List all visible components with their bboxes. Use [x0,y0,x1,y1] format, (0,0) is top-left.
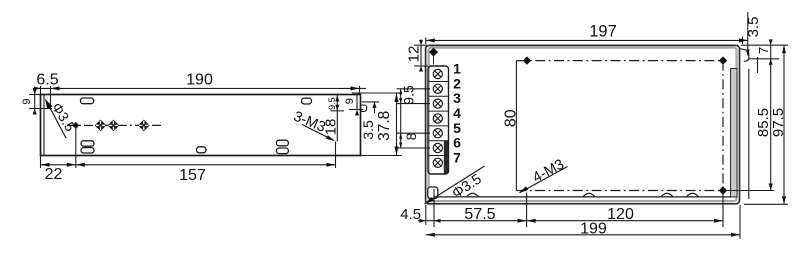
case bottom inner dark line [428,196,737,198]
inner hole diamond top-left [523,56,531,64]
svg-text:37.8: 37.8 [376,111,393,141]
side hole diamond 2 [108,120,120,132]
dimension 199 line [426,205,740,239]
centerline through side holes [67,124,163,126]
svg-text:80: 80 [502,109,519,127]
svg-text:2: 2 [453,75,461,91]
svg-text:3: 3 [453,90,461,106]
vent slot bottom-right upper [276,140,288,146]
terminal block outline [428,66,449,174]
dimension 4.5 / 57.5 / 120 line [418,189,723,227]
vent slot top-left [81,98,94,104]
inner hole diamond top-right [719,56,727,64]
svg-text:4-M3: 4-M3 [530,157,567,187]
dimension 6.5 / 190 top line [33,86,366,109]
svg-text:18: 18 [323,119,340,136]
dimension 9 left [29,90,52,114]
svg-text:190: 190 [186,71,213,88]
svg-text:3.5: 3.5 [360,120,376,140]
vent slot bottom-left lower [81,148,94,153]
top-left mounting hole diamond [429,48,438,57]
label 3-M3 leader [302,125,333,141]
svg-text:6: 6 [453,135,461,151]
svg-text:9.5: 9.5 [401,85,417,105]
svg-text:4.5: 4.5 [400,206,421,223]
label phi3.5 leader (right view) [425,166,485,204]
dimension 9.5 / 8 chain [397,89,431,148]
dimension 22 / 157 bottom line [41,128,336,168]
bottom bump 2 [583,193,595,197]
dimension 3.5 (left view right) [362,102,379,113]
svg-text:9: 9 [21,98,33,104]
bottom-left corner hole tab [428,187,438,198]
bottom bump 3 [661,193,673,197]
svg-text:12: 12 [405,46,422,63]
dimension 9 (right of left view) [349,95,363,110]
svg-text:8: 8 [403,132,419,140]
dimension 97.5 line [783,45,785,204]
left view inner left edge line [43,95,45,156]
extension stub x757.5 [757,57,759,73]
dimension 197 [426,37,748,45]
leader line phi3.5 (left view) [46,100,67,139]
side hole small diamond [72,122,79,129]
side hole diamond 1 [95,120,107,132]
svg-text:157: 157 [179,167,206,184]
svg-text:22: 22 [45,166,63,183]
dimension 37.8 [352,93,402,156]
terminal dividers [428,82,449,156]
tick y204.3 [744,203,788,205]
left view body outline [41,95,361,156]
case outline outer [426,45,740,203]
terminal screws 1-7 [433,69,442,167]
vent slot bottom-middle [197,147,207,153]
vent slot top-right [302,98,312,104]
left view right side tab [361,105,367,111]
tick y190.5 [727,190,774,192]
svg-text:7: 7 [756,47,771,54]
svg-text:120: 120 [607,206,634,223]
svg-text:57.5: 57.5 [464,206,495,223]
right side tick y45.2 [741,44,788,46]
extension line x749 [748,69,750,199]
terminal numbers [453,61,461,166]
bottom bump 1 [467,193,479,197]
dimension 18 / 9.5 chain (left view) [331,95,345,142]
terminal block shading strip [444,141,449,174]
dimension 80 line [515,61,517,191]
vent slot bottom-left upper [81,141,94,146]
svg-text:199: 199 [580,220,607,237]
dimension 12 [414,45,428,66]
hole centre stub below top-left diamond [433,57,435,65]
vent slot bottom-right lower [276,148,288,154]
side hole diamond 3 [138,120,150,132]
svg-text:4: 4 [453,105,461,121]
svg-text:1: 1 [453,61,461,77]
svg-text:9.5: 9.5 [327,97,337,110]
inner hidden rectangle dash-dot [516,61,723,191]
dimension 7 / 85.5 line [770,45,772,190]
svg-text:5: 5 [453,120,461,136]
svg-text:6.5: 6.5 [36,71,58,88]
svg-text:97.5: 97.5 [770,108,787,137]
case outline inner gray [429,48,737,201]
top-right clip tab [740,49,749,62]
svg-text:9: 9 [344,98,356,104]
inner hole diamond bottom-right [719,186,727,194]
tick y58.8 [749,58,779,60]
svg-text:Φ3.5: Φ3.5 [49,100,79,135]
dimension 3.5 line (right view) [747,12,749,56]
svg-text:7: 7 [453,149,461,165]
label 4-M3 leader [520,167,568,193]
right inner flange [731,69,738,197]
bottom bump 4 [687,193,699,197]
svg-text:3.5: 3.5 [745,17,762,38]
svg-text:197: 197 [589,22,617,40]
